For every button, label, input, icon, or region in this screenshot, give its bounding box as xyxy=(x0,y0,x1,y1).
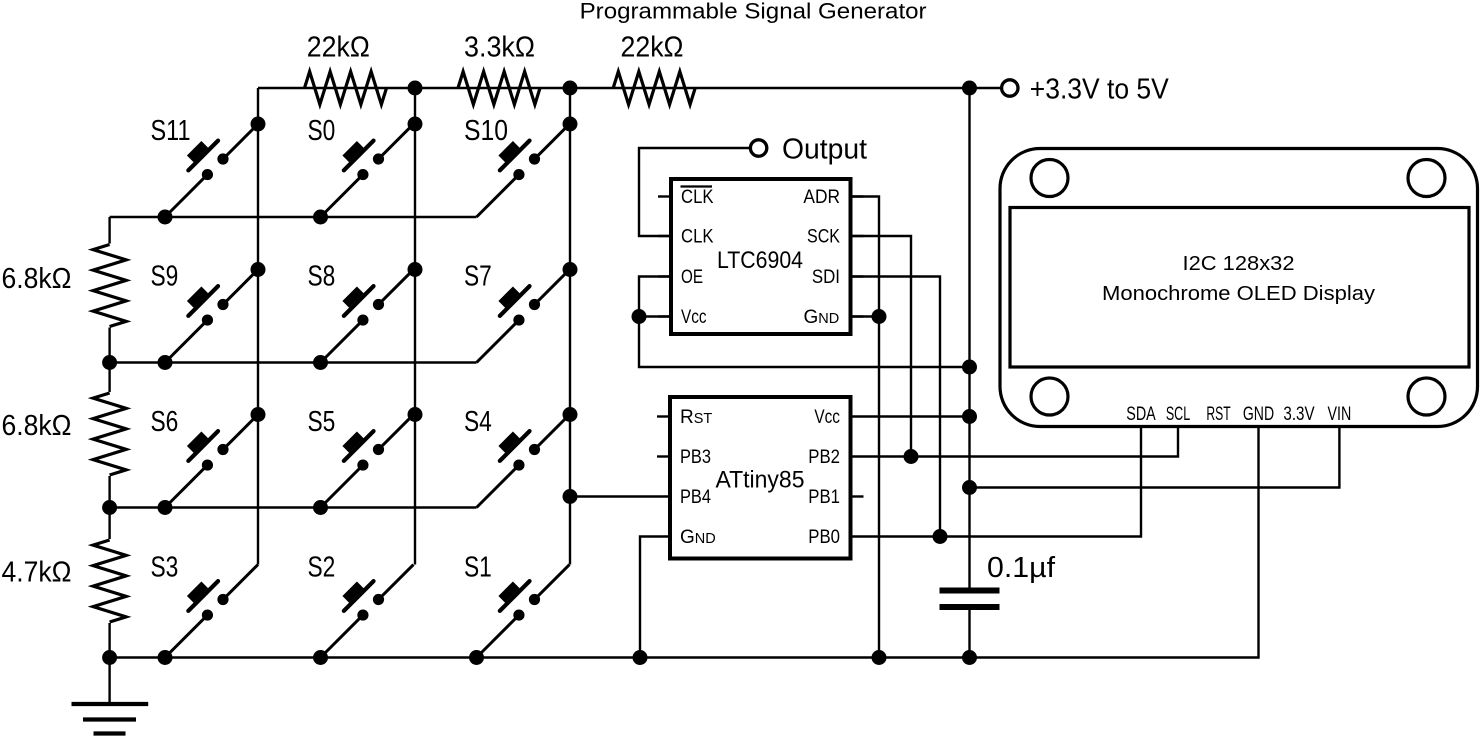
wire rail to OLED VIN xyxy=(970,427,1340,488)
svg-text:PB3: PB3 xyxy=(680,447,711,468)
resistor R4 6.8k zigzag xyxy=(93,245,126,327)
resistor R1 22k zigzag xyxy=(305,72,387,105)
node junction rail at ground bus xyxy=(962,650,977,665)
switch S3 xyxy=(145,545,262,662)
svg-text:RST: RST xyxy=(680,407,712,428)
switch S2 xyxy=(301,545,418,662)
switch S0 xyxy=(301,104,418,221)
svg-text:S3: S3 xyxy=(151,551,179,583)
switch S1 xyxy=(457,545,574,662)
node junction row2 left xyxy=(102,355,117,370)
wire output to U1 CLK xyxy=(639,148,750,236)
terminal Output xyxy=(750,140,766,156)
svg-text:I2C 128x32: I2C 128x32 xyxy=(1183,253,1295,275)
node junction power rail on power bus xyxy=(962,81,977,96)
node junctions switch bottom terminals on rows xyxy=(158,210,173,225)
wire row 1 xyxy=(110,216,477,218)
node junction U1 Vcc xyxy=(632,309,647,324)
svg-text:GND: GND xyxy=(680,527,716,548)
svg-text:S8: S8 xyxy=(308,260,336,292)
svg-text:VIN: VIN xyxy=(1328,404,1352,425)
svg-text:S9: S9 xyxy=(151,260,179,292)
wire U2 PB0 to OLED SDA xyxy=(851,427,1142,537)
svg-text:OE: OE xyxy=(681,267,703,288)
svg-text:S11: S11 xyxy=(151,115,191,147)
wire R5 leads xyxy=(108,363,110,393)
svg-text:PB2: PB2 xyxy=(808,447,840,468)
switch S5 xyxy=(301,395,418,512)
node junction U1 GND-ADR xyxy=(872,309,887,324)
svg-text:SDI: SDI xyxy=(812,267,840,288)
svg-text:PB1: PB1 xyxy=(808,487,840,508)
svg-text:SCK: SCK xyxy=(807,227,840,248)
wire column 2 xyxy=(414,88,416,565)
wire column 1 xyxy=(257,88,259,565)
U2 unconnected pin stubs RST PB3 PB1 xyxy=(657,415,670,417)
svg-text:S7: S7 xyxy=(464,260,492,292)
wire U1 SDI down xyxy=(851,277,941,537)
node junction SCK-PB2 xyxy=(904,449,919,464)
IC U2 ATtiny85 box xyxy=(670,397,851,559)
OLED display module U3 xyxy=(1000,149,1478,427)
wire row 2 xyxy=(110,361,477,363)
node junction row3 left xyxy=(102,500,117,515)
svg-text:SDA: SDA xyxy=(1126,404,1156,425)
svg-text:6.8kΩ: 6.8kΩ xyxy=(2,410,72,442)
svg-text:S10: S10 xyxy=(464,115,508,147)
svg-text:PB0: PB0 xyxy=(808,527,840,548)
node junctions switch top terminals on columns xyxy=(251,117,266,132)
wire U1 ADR to ground bus xyxy=(851,197,880,658)
node junction col2 on power bus xyxy=(408,81,423,96)
svg-text:S5: S5 xyxy=(308,406,336,438)
svg-text:S0: S0 xyxy=(308,115,336,147)
svg-text:Programmable Signal Generator: Programmable Signal Generator xyxy=(580,0,928,23)
svg-text:Output: Output xyxy=(782,134,867,166)
wire row 3 xyxy=(110,506,477,508)
resistor R5 6.8k zigzag xyxy=(93,393,126,475)
switch S7 xyxy=(457,250,574,367)
svg-text:LTC6904: LTC6904 xyxy=(717,247,803,274)
svg-text:S6: S6 xyxy=(151,406,179,438)
wire U1 OE and Vcc to power rail xyxy=(639,277,970,368)
svg-text:ADR: ADR xyxy=(803,187,840,208)
svg-text:GND: GND xyxy=(1243,404,1274,425)
wire left chain top segment xyxy=(108,217,110,244)
svg-text:Monochrome OLED Display: Monochrome OLED Display xyxy=(1102,283,1375,305)
wire U2 PB4 to column 3 xyxy=(570,495,670,497)
svg-text:CLK: CLK xyxy=(681,227,714,248)
IC U1 LTC6904 box xyxy=(671,179,851,334)
wire power rail vertical xyxy=(968,88,970,588)
svg-text:6.8kΩ: 6.8kΩ xyxy=(2,263,72,295)
wire row 4 (ground bus) xyxy=(110,427,1259,658)
node junction SDI-PB0 xyxy=(933,529,948,544)
svg-text:PB4: PB4 xyxy=(680,487,711,508)
svg-text:22kΩ: 22kΩ xyxy=(621,32,684,64)
wire top power bus xyxy=(258,87,1002,89)
node junction column3 PB4 tap xyxy=(563,489,578,504)
svg-text:S1: S1 xyxy=(464,551,492,583)
resistor R3 22k zigzag xyxy=(613,72,695,105)
svg-text:4.7kΩ: 4.7kΩ xyxy=(2,557,72,589)
svg-text:0.1µf: 0.1µf xyxy=(987,552,1055,584)
resistor R6 4.7k zigzag xyxy=(93,540,126,622)
node junction row4 left xyxy=(102,650,117,665)
svg-text:ATtiny85: ATtiny85 xyxy=(716,467,805,494)
wire R6 leads xyxy=(108,508,110,540)
svg-text:3.3kΩ: 3.3kΩ xyxy=(464,32,535,64)
svg-text:S2: S2 xyxy=(308,551,336,583)
svg-text:CLK: CLK xyxy=(681,187,714,208)
capacitor C1 0.1uf xyxy=(940,588,1000,594)
svg-text:3.3V: 3.3V xyxy=(1283,404,1314,425)
wire U2 Vcc to power rail xyxy=(851,415,970,417)
node junction rail at VIN branch xyxy=(962,480,977,495)
switch S8 xyxy=(301,250,418,367)
U1 pin stubs xyxy=(658,195,671,197)
switch S9 xyxy=(145,250,262,367)
node junction col3 on power bus xyxy=(563,81,578,96)
ground xyxy=(108,658,110,705)
node junction ADR line at ground bus xyxy=(872,650,887,665)
wire R4 to row2 xyxy=(108,328,110,363)
terminal +3.3V to 5V xyxy=(1002,80,1018,96)
svg-text:Vcc: Vcc xyxy=(681,307,707,328)
wire U2 PB2 to OLED SCL xyxy=(851,427,1179,457)
svg-text:GND: GND xyxy=(804,307,840,328)
wire column 3 xyxy=(569,88,571,565)
svg-text:Vcc: Vcc xyxy=(814,407,840,428)
svg-text:S4: S4 xyxy=(464,406,492,438)
node junction rail at Vcc loop xyxy=(962,360,977,375)
switch S6 xyxy=(145,395,262,512)
switch S4 xyxy=(457,395,574,512)
switch S10 xyxy=(457,104,574,221)
node junction U2 GND at ground bus xyxy=(633,650,648,665)
svg-text:RST: RST xyxy=(1206,404,1231,425)
svg-text:22kΩ: 22kΩ xyxy=(307,32,370,64)
wire U2 GND to ground bus xyxy=(640,537,670,658)
svg-text:+3.3V to 5V: +3.3V to 5V xyxy=(1030,74,1169,106)
resistor R2 3.3k zigzag xyxy=(458,72,540,105)
svg-text:SCL: SCL xyxy=(1166,404,1190,425)
wire U1 SCK down xyxy=(851,236,912,457)
wire U1 GND to ADR line xyxy=(851,315,880,317)
node junction rail at U2 Vcc xyxy=(962,409,977,424)
switch S11 xyxy=(145,104,262,221)
